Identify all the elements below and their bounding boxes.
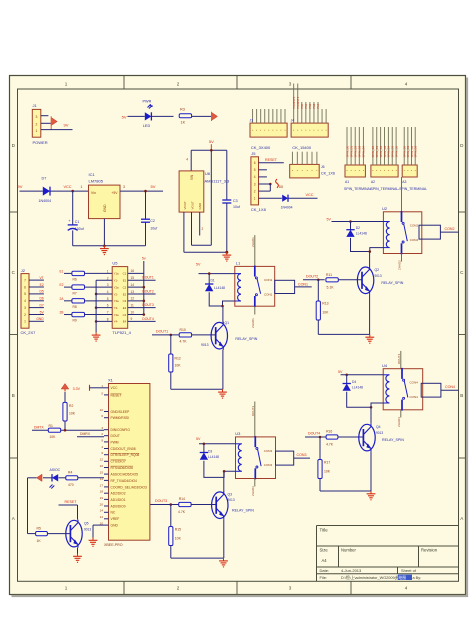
svg-text:12: 12 (131, 297, 135, 301)
svg-text:5.1K: 5.1K (327, 286, 335, 290)
svg-text:E2: E2 (123, 292, 127, 296)
TLP521 cathode bus to ground (96, 279, 112, 281)
svg-text:4.7K: 4.7K (180, 340, 188, 344)
svg-text:1: 1 (254, 197, 256, 201)
svg-text:CON4: CON4 (410, 395, 419, 399)
gnd rail LM7805 (73, 245, 146, 247)
wire D4 to coil bottom and Q4 (347, 392, 384, 408)
junction C1 tap (71, 190, 74, 193)
svg-text:4: 4 (254, 175, 256, 179)
svg-text:DOUT3: DOUT3 (142, 303, 154, 307)
X1 pin PWM0/RSSI (104, 417, 109, 419)
wire R14 to Q3 base (191, 504, 216, 506)
wire U6 pin mid loop (191, 212, 193, 245)
svg-text:GND: GND (36, 317, 44, 321)
svg-text:D7: D7 (42, 177, 47, 181)
X1 pin RESET (104, 394, 109, 396)
J5 pin2 wire (259, 190, 271, 192)
svg-text:2: 2 (254, 189, 256, 193)
svg-text:DMRX: DMRX (80, 432, 91, 436)
svg-text:GND: GND (198, 202, 202, 210)
svg-text:C1: C1 (123, 272, 127, 276)
wire stub below relay L1 (254, 306, 256, 314)
svg-text:CD/DOUT_EN08: CD/DOUT_EN08 (111, 447, 136, 451)
svg-text:13: 13 (131, 290, 135, 294)
X1 pin VCC (104, 387, 109, 389)
svg-text:VREF: VREF (111, 517, 120, 521)
svg-text:CK_1X8: CK_1X8 (251, 207, 267, 212)
svg-text:LED: LED (143, 124, 151, 128)
svg-text:ZHAD2: ZHAD2 (398, 260, 402, 270)
svg-text:14: 14 (100, 509, 104, 513)
wire 5V to U4 coil (341, 374, 384, 376)
svg-text:10K: 10K (322, 311, 329, 315)
wire AMS top rail (191, 149, 227, 151)
svg-text:LL4148: LL4148 (208, 455, 219, 459)
svg-text:10K: 10K (324, 470, 331, 474)
svg-text:绘图: 绘图 (399, 575, 407, 580)
svg-text:2: 2 (202, 227, 204, 231)
wire U6 pin right stub (199, 212, 201, 235)
ground symbol Q3 (223, 558, 225, 561)
svg-text:10K: 10K (175, 364, 182, 368)
svg-text:•: • (396, 168, 397, 172)
svg-text:VCC: VCC (64, 185, 72, 189)
svg-text:C2: C2 (123, 285, 127, 289)
X1 pin RTS/AD6/DIO6 (104, 467, 109, 469)
wire stub above relay U3 (254, 402, 256, 437)
connector A3 SPIN_TERMINAL (402, 165, 417, 177)
svg-text:U4: U4 (382, 363, 388, 368)
svg-text:3.3V: 3.3V (73, 387, 81, 391)
svg-text:•: • (346, 168, 347, 172)
svg-text:SPIN_TERMINAL: SPIN_TERMINAL (344, 187, 372, 191)
X1 pin AD2/DIO2 (104, 492, 109, 494)
power arrow right of R3 (212, 112, 218, 120)
svg-text:R9: R9 (73, 319, 77, 323)
svg-text:R1: R1 (49, 424, 53, 428)
resistor R15 10K pulldown (170, 505, 172, 527)
diode D3 LL4148 (203, 444, 205, 453)
svg-text:A3: A3 (402, 180, 406, 184)
svg-text:Q5: Q5 (84, 522, 89, 526)
wire IC1 gnd pin (103, 219, 105, 246)
svg-text:4-Jun-2013: 4-Jun-2013 (341, 568, 362, 573)
svg-text:R17: R17 (324, 461, 330, 465)
svg-text:•: • (404, 168, 405, 172)
svg-text:+5V: +5V (111, 191, 118, 195)
J5 pin3 wire (259, 183, 271, 185)
X1 pin DIN/CONFIG (104, 429, 109, 431)
svg-text:9013: 9013 (376, 431, 383, 435)
svg-text:1K: 1K (37, 539, 42, 543)
svg-text:R7: R7 (73, 291, 77, 295)
ground symbol TLP521 (95, 332, 97, 335)
zone ticks and labels (123, 76, 125, 90)
svg-text:P11: P11 (304, 104, 308, 109)
svg-text:D6: D6 (39, 297, 43, 301)
gnd rail AMS1117 (184, 251, 227, 253)
svg-text:5V: 5V (338, 370, 343, 374)
svg-text:•: • (260, 128, 261, 132)
svg-text:10: 10 (131, 310, 135, 314)
svg-text:P12: P12 (308, 103, 312, 108)
svg-text:AMS1117_3.3: AMS1117_3.3 (205, 179, 231, 184)
svg-text:P14: P14 (316, 103, 320, 108)
svg-text:DOUT4: DOUT4 (142, 317, 154, 321)
diode D4 LL4148 (346, 375, 348, 384)
svg-text:•: • (313, 128, 314, 132)
svg-text:3: 3 (36, 115, 38, 119)
svg-text:•: • (297, 169, 298, 173)
wire stub above relay U4 (400, 351, 402, 369)
X1 pin AD1/DIO1 (104, 498, 109, 500)
svg-text:14: 14 (131, 283, 135, 287)
svg-text:10: 10 (100, 408, 104, 412)
svg-text:•: • (376, 168, 377, 172)
svg-text:10uf: 10uf (233, 205, 240, 209)
svg-text:7: 7 (107, 311, 109, 315)
wire CON2 to border (440, 231, 458, 233)
X1 GND pin to ground (93, 524, 104, 526)
svg-text:•: • (326, 128, 327, 132)
svg-text:5: 5 (24, 292, 26, 296)
svg-text:6: 6 (107, 304, 109, 308)
svg-text:L1: L1 (236, 260, 241, 265)
svg-text:D2: D2 (356, 226, 360, 230)
svg-text:9013: 9013 (84, 528, 91, 532)
wire 5V to L1 coil (199, 273, 235, 275)
diode D5 1N4004 (282, 195, 288, 202)
svg-text:20: 20 (100, 502, 104, 506)
svg-text:CON2: CON2 (410, 224, 419, 228)
svg-text:VCC: VCC (306, 193, 314, 197)
svg-text:5V: 5V (196, 437, 201, 441)
svg-text:9013: 9013 (375, 274, 382, 278)
resistor R2 10K pullup (64, 392, 66, 402)
svg-text:3: 3 (123, 185, 125, 189)
TLP521 output wire net DOUT1 (128, 279, 156, 281)
svg-text:•: • (297, 128, 298, 132)
Q1 emitter gnd rail (171, 388, 223, 390)
svg-text:Y2a: Y2a (114, 285, 119, 289)
svg-text:2: 2 (107, 276, 109, 280)
svg-text:RF_TX/AD4/DIO4: RF_TX/AD4/DIO4 (111, 479, 138, 483)
svg-text:SPIN_D3: SPIN_D3 (414, 145, 418, 157)
svg-text:470: 470 (68, 483, 74, 487)
title block (316, 526, 318, 582)
svg-text:RELAY_SPIN: RELAY_SPIN (381, 281, 403, 285)
svg-text:RTS/AD6/DIO6: RTS/AD6/DIO6 (111, 466, 134, 470)
svg-text:17: 17 (100, 483, 104, 487)
svg-text:•: • (363, 168, 364, 172)
svg-text:PWM: PWM (111, 440, 119, 444)
svg-text:RESET: RESET (265, 158, 278, 162)
svg-text:5: 5 (107, 297, 109, 301)
svg-text:CON1: CON1 (298, 282, 308, 286)
wire R1 to X1 DIN (61, 429, 104, 431)
svg-text:11: 11 (131, 303, 135, 307)
relay U3 contact bracket (276, 451, 294, 465)
svg-text:1: 1 (36, 129, 38, 133)
svg-text:C2: C2 (150, 219, 155, 223)
svg-text:P10: P10 (300, 103, 304, 108)
file row selection highlight (398, 575, 412, 580)
X1 pin DOUT (104, 435, 109, 437)
svg-text:CK_1X6: CK_1X6 (321, 172, 335, 176)
svg-text:3: 3 (24, 306, 26, 310)
net label DOUT3 wire from MCU (150, 504, 179, 506)
svg-text:1: 1 (65, 81, 68, 86)
X1 pin PWM (104, 441, 109, 443)
svg-text:a By:: a By: (413, 576, 422, 580)
svg-text:•: • (276, 128, 277, 132)
wire stub below relay U2 (401, 254, 403, 262)
svg-text:5V: 5V (327, 217, 332, 221)
sheet background (10, 76, 466, 595)
svg-text:DOUT2: DOUT2 (142, 289, 154, 293)
power arrow 9V (51, 118, 57, 126)
svg-text:3: 3 (107, 283, 109, 287)
Q5 collector wire (77, 505, 79, 520)
resistor R12 10K pulldown (170, 335, 172, 354)
resistor R13 10K pulldown (317, 280, 319, 301)
J5 pin6 wire net RESET (259, 162, 284, 164)
svg-text:ASSOC/AD5/DIO5: ASSOC/AD5/DIO5 (111, 473, 139, 477)
svg-text:1: 1 (65, 585, 68, 590)
svg-text:R15: R15 (175, 528, 181, 532)
inner border (18, 89, 459, 581)
wire LED arrow to Q5 branch (28, 477, 37, 479)
svg-text:File:: File: (320, 575, 328, 580)
svg-text:ZHAD1: ZHAD1 (251, 318, 255, 328)
X1 pin VREF (104, 518, 109, 520)
Q5 emitter to ground (77, 548, 79, 554)
svg-text:J6: J6 (321, 165, 325, 169)
svg-text:RELAY_SPIN: RELAY_SPIN (232, 509, 254, 513)
svg-text:DOUT1: DOUT1 (156, 329, 168, 333)
svg-text:XBEE-PRO: XBEE-PRO (104, 543, 123, 547)
svg-text:Q1: Q1 (225, 321, 230, 325)
X1 pin NC (104, 511, 109, 513)
svg-text:6: 6 (254, 161, 256, 165)
svg-text:16: 16 (131, 269, 135, 273)
wire D1 to coil bottom and Q1 (209, 292, 235, 306)
J5 pin4 stub (259, 176, 267, 178)
svg-text:5V: 5V (209, 139, 214, 144)
svg-text:1: 1 (81, 185, 83, 189)
svg-text:5V: 5V (151, 184, 156, 189)
svg-text:R13: R13 (322, 302, 328, 306)
relay L1 contact bracket (275, 280, 295, 293)
connector A1 SPIN_TERMINAL (345, 165, 365, 177)
svg-text:CON3: CON3 (264, 449, 273, 453)
wire IC1 out to 5V (120, 190, 163, 192)
svg-text:1N4004: 1N4004 (281, 205, 293, 209)
wire R11 to Q2 base (338, 279, 362, 281)
svg-text:LL4148: LL4148 (356, 232, 367, 236)
svg-text:9V: 9V (18, 184, 23, 189)
svg-text:CON3: CON3 (264, 463, 273, 467)
svg-text:E2: E2 (40, 283, 44, 287)
svg-text:•: • (280, 128, 281, 132)
svg-text:5V: 5V (196, 262, 201, 266)
svg-text:•: • (256, 128, 257, 132)
wire 9V to D7 (20, 190, 43, 192)
svg-text:DOUT3: DOUT3 (155, 499, 167, 503)
svg-text:SPIN_D6: SPIN_D6 (394, 145, 398, 157)
svg-text:•: • (392, 168, 393, 172)
svg-text:•: • (302, 169, 303, 173)
wire D3 to coil bottom and Q3 (204, 461, 236, 478)
svg-text:19: 19 (100, 496, 104, 500)
svg-text:U6: U6 (205, 171, 211, 176)
svg-text:8: 8 (107, 317, 109, 321)
svg-text:P3.2/INT0: P3.2/INT0 (292, 96, 296, 108)
wire D5 to VCC (289, 197, 318, 199)
wire U6 pin left down (183, 212, 185, 252)
svg-text:DOUT3: DOUT3 (251, 406, 255, 416)
svg-text:D7: D7 (39, 303, 43, 307)
svg-text:GND/SLEEP: GND/SLEEP (111, 410, 131, 414)
svg-text:VCC: VCC (111, 386, 119, 390)
transistor Q5 9013 (66, 520, 82, 547)
svg-text:SPIN_D4: SPIN_D4 (362, 145, 366, 157)
svg-text:DOUT4: DOUT4 (397, 354, 401, 364)
wire stub below relay U4 (400, 410, 402, 418)
svg-text:2: 2 (24, 313, 26, 317)
svg-text:DOUT1: DOUT1 (142, 276, 154, 280)
svg-text:LL4148: LL4148 (214, 286, 225, 290)
svg-text:•: • (355, 168, 356, 172)
wire SPIN terminal to relay U2 (401, 177, 403, 212)
svg-text:•: • (380, 168, 381, 172)
J5 pin5 stub (259, 169, 267, 171)
resistor R1 10K on DMTX (48, 428, 60, 432)
svg-text:E4: E4 (123, 320, 127, 324)
svg-text:10K: 10K (69, 412, 76, 416)
svg-text:CON4: CON4 (445, 385, 455, 389)
net label DOUT2 wire (303, 279, 325, 281)
svg-text:•: • (317, 128, 318, 132)
capacitor C1 100uF (72, 191, 74, 225)
wire D7 to IC1 (50, 190, 88, 192)
net label DOUT1 wire (152, 334, 179, 336)
ground symbol Q1 (222, 389, 224, 392)
svg-text:P3.3/INT1: P3.3/INT1 (296, 96, 300, 108)
svg-text:CON1: CON1 (264, 293, 273, 297)
svg-text:4: 4 (186, 158, 188, 162)
ground symbol Q2 (369, 334, 371, 337)
svg-text:D4: D4 (352, 380, 356, 384)
svg-text:CON1: CON1 (264, 278, 273, 282)
wire J1 pin2 (41, 122, 51, 124)
svg-text:Y2-: Y2- (114, 292, 118, 296)
svg-text:R4: R4 (68, 471, 72, 475)
svg-text:•: • (359, 168, 360, 172)
svg-text:X1: X1 (108, 378, 114, 383)
net label DOUT4 wire (305, 436, 326, 438)
svg-text:CON2: CON2 (410, 238, 419, 242)
J5 pin1 wire to D5 (259, 197, 282, 199)
svg-text:•: • (351, 168, 352, 172)
svg-text:A2: A2 (371, 180, 375, 184)
svg-text:E2: E2 (59, 283, 63, 287)
svg-text:Y4a: Y4a (114, 313, 119, 317)
svg-text:10uf: 10uf (150, 227, 157, 231)
svg-text:POWER: POWER (33, 140, 48, 145)
svg-text:10K: 10K (175, 537, 182, 541)
svg-text:•: • (305, 128, 306, 132)
svg-text:AD1/DIO1: AD1/DIO1 (111, 498, 126, 502)
svg-text:R16: R16 (326, 430, 332, 434)
svg-text:R11: R11 (326, 273, 332, 277)
svg-text:B: B (460, 393, 463, 398)
svg-text:C4: C4 (123, 313, 127, 317)
svg-text:PWR: PWR (143, 99, 152, 103)
connector CK_3X400 (left) (250, 123, 287, 137)
svg-text:4: 4 (107, 290, 109, 294)
svg-text:•: • (309, 128, 310, 132)
svg-text:D5: D5 (39, 290, 43, 294)
svg-text:R6: R6 (73, 278, 77, 282)
svg-text:TLP521_4: TLP521_4 (112, 330, 131, 335)
svg-text:ZHAD4: ZHAD4 (397, 417, 401, 427)
svg-text:5v: 5v (142, 257, 146, 261)
svg-text:Vin: Vin (91, 191, 96, 195)
svg-text:2: 2 (177, 585, 180, 590)
svg-text:Q3: Q3 (228, 493, 233, 497)
svg-text:R10: R10 (180, 328, 186, 332)
svg-text:CON4: CON4 (410, 381, 419, 385)
svg-text:COORD_SEL/AD3/DIO3: COORD_SEL/AD3/DIO3 (111, 485, 147, 489)
svg-text:9V: 9V (64, 123, 69, 128)
svg-text:•: • (372, 168, 373, 172)
svg-text:9013: 9013 (228, 498, 235, 502)
svg-text:4.7K: 4.7K (326, 442, 334, 446)
svg-text:RELAY_SPIN: RELAY_SPIN (235, 337, 257, 341)
svg-text:Title: Title (320, 528, 329, 533)
relay U2 contact bracket (419, 225, 440, 239)
wire stub above relay L1 (254, 235, 256, 266)
svg-text:PWM0/RSSI: PWM0/RSSI (111, 416, 130, 420)
wire 5V to U3 coil (199, 443, 236, 445)
svg-text:•: • (292, 169, 293, 173)
relay U4 contact bracket (421, 383, 441, 397)
X1 pin ASSOC/AD5/DIO5 (104, 473, 109, 475)
wire J1 pin1 to 9V rail (41, 129, 73, 131)
svg-text:DOUT2: DOUT2 (306, 274, 318, 278)
ground symbol X1 GND (92, 538, 94, 541)
resistor R17 10K pulldown (319, 437, 321, 460)
svg-text:3: 3 (289, 585, 292, 590)
svg-text:C3: C3 (233, 199, 238, 203)
svg-text:E1: E1 (123, 279, 127, 283)
svg-text:•: • (293, 128, 294, 132)
svg-text:4.7K: 4.7K (178, 510, 186, 514)
wire R3 to arrow (192, 115, 212, 117)
svg-text:5: 5 (254, 168, 256, 172)
svg-text:DOUT: DOUT (111, 434, 120, 438)
svg-text:ZHAD3: ZHAD3 (251, 486, 255, 496)
wire CON3 (294, 457, 310, 459)
svg-text:Revision: Revision (421, 548, 438, 553)
svg-text:Y3-: Y3- (114, 306, 118, 310)
svg-text:C1: C1 (75, 220, 80, 224)
capacitor C2 10uF (145, 191, 147, 219)
svg-text:•: • (407, 168, 408, 172)
red NC marker on J5 pin3 (276, 179, 279, 188)
